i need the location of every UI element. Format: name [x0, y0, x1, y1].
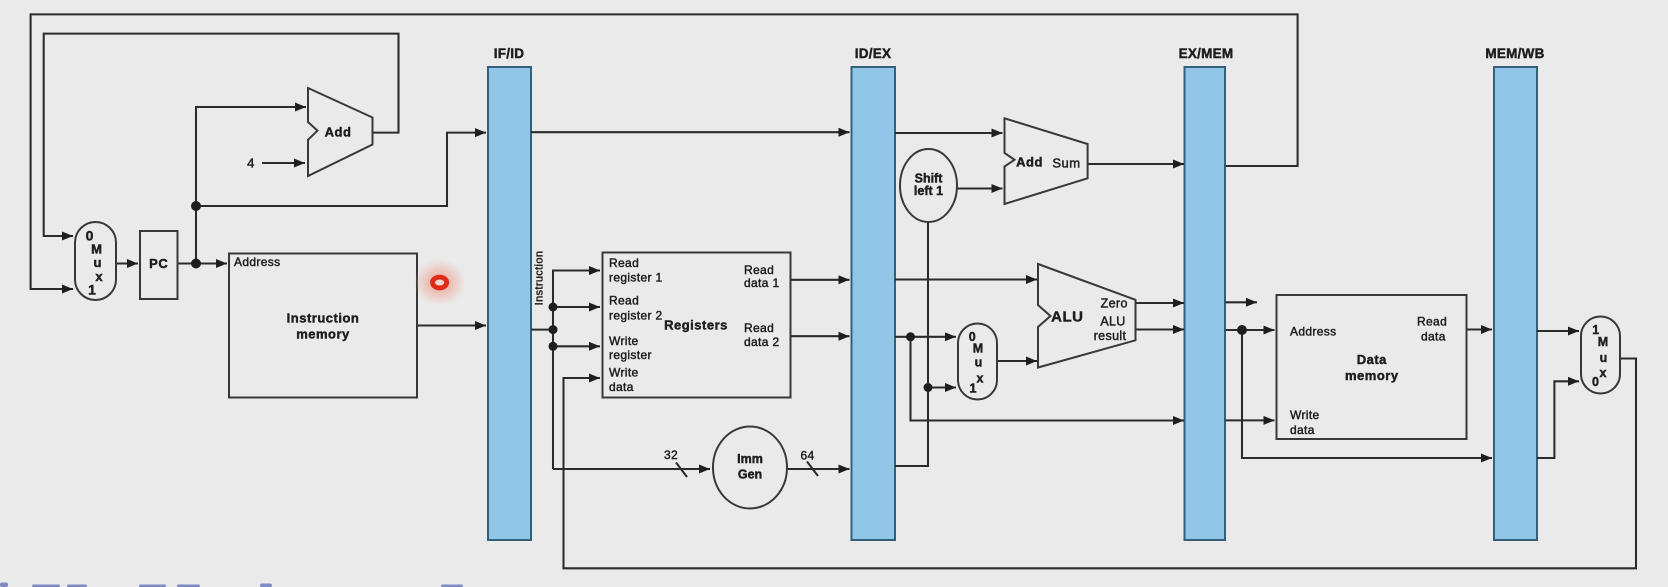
svg-text:register 1: register 1: [609, 271, 663, 285]
svg-text:Read: Read: [744, 263, 774, 277]
svg-text:left 1: left 1: [914, 184, 943, 198]
svg-text:register 2: register 2: [609, 309, 663, 323]
svg-text:Imm: Imm: [737, 452, 763, 466]
svg-text:M: M: [973, 342, 983, 356]
svg-text:Write: Write: [609, 366, 639, 380]
svg-text:Read: Read: [609, 294, 639, 308]
svg-text:Zero: Zero: [1101, 297, 1128, 311]
svg-text:32: 32: [664, 448, 678, 462]
svg-text:Address: Address: [1290, 325, 1336, 339]
svg-text:x: x: [95, 269, 103, 284]
svg-text:Gen: Gen: [738, 468, 762, 482]
svg-text:Read: Read: [744, 321, 774, 335]
svg-text:Add: Add: [325, 125, 352, 140]
svg-text:4: 4: [247, 156, 255, 171]
svg-text:1: 1: [970, 382, 977, 396]
svg-text:u: u: [975, 356, 983, 370]
svg-text:Write: Write: [609, 334, 639, 348]
svg-text:PC: PC: [149, 256, 168, 271]
svg-text:Instruction: Instruction: [534, 251, 546, 306]
svg-text:data: data: [1290, 423, 1315, 437]
svg-text:64: 64: [800, 449, 814, 463]
svg-text:data: data: [1421, 330, 1446, 344]
svg-text:ID/EX: ID/EX: [855, 46, 892, 61]
svg-text:Instruction: Instruction: [287, 311, 360, 326]
svg-text:Read: Read: [609, 256, 639, 270]
svg-text:1: 1: [88, 282, 96, 298]
svg-text:data: data: [609, 380, 634, 394]
svg-text:x: x: [1600, 366, 1607, 380]
svg-text:Read: Read: [1417, 315, 1447, 329]
svg-text:Registers: Registers: [664, 318, 728, 333]
svg-text:data 2: data 2: [744, 335, 779, 349]
svg-text:x: x: [977, 372, 984, 386]
svg-text:ALU: ALU: [1051, 309, 1083, 326]
svg-text:register: register: [609, 348, 652, 362]
svg-text:Address: Address: [234, 255, 280, 269]
svg-text:Add: Add: [1016, 155, 1043, 170]
svg-text:0: 0: [1592, 375, 1599, 389]
svg-text:EX/MEM: EX/MEM: [1179, 46, 1234, 61]
svg-text:Write: Write: [1290, 408, 1320, 422]
svg-text:ALU: ALU: [1100, 314, 1125, 328]
svg-text:data 1: data 1: [744, 276, 779, 290]
svg-text:memory: memory: [1345, 368, 1399, 383]
svg-text:u: u: [1600, 351, 1608, 365]
svg-text:result: result: [1094, 329, 1127, 343]
svg-text:IF/ID: IF/ID: [494, 46, 525, 61]
svg-text:Data: Data: [1357, 352, 1387, 367]
svg-text:memory: memory: [296, 327, 350, 342]
svg-text:MEM/WB: MEM/WB: [1485, 46, 1544, 61]
svg-text:Sum: Sum: [1052, 156, 1080, 171]
svg-text:u: u: [94, 255, 102, 270]
svg-text:M: M: [1598, 335, 1608, 349]
